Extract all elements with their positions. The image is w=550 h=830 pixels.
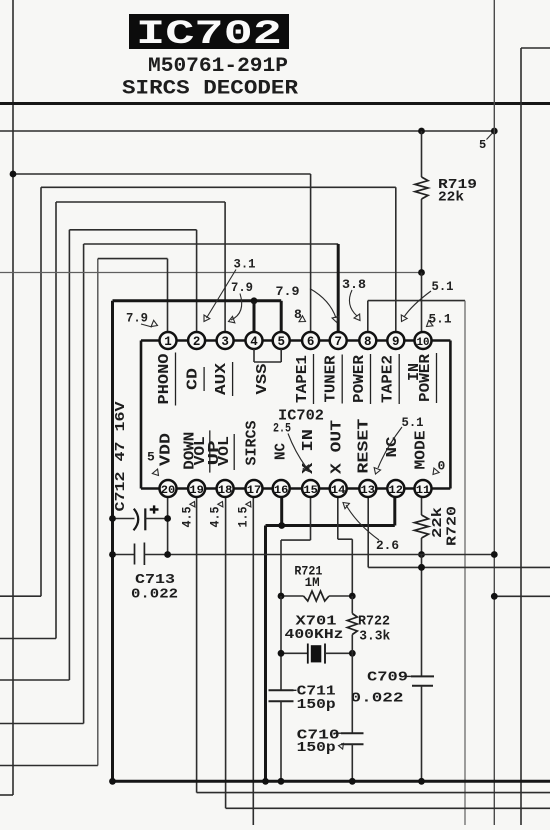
svg-text:4.5: 4.5 [180,506,195,527]
svg-text:RESET: RESET [356,419,373,474]
svg-text:2.6: 2.6 [376,538,399,553]
svg-text:15: 15 [303,485,318,497]
svg-text:5: 5 [147,450,155,465]
svg-text:8: 8 [294,307,302,322]
svg-text:NC: NC [273,443,290,460]
svg-text:14: 14 [331,485,346,497]
svg-text:3: 3 [221,335,229,349]
svg-text:9: 9 [392,335,400,349]
svg-text:13: 13 [361,485,376,497]
svg-text:VSS: VSS [254,364,271,395]
svg-text:11: 11 [416,485,431,497]
svg-text:R722: R722 [358,614,390,630]
svg-text:SIRCS DECODER: SIRCS DECODER [122,78,298,101]
svg-text:C709: C709 [367,670,408,686]
svg-text:17: 17 [247,485,262,497]
svg-text:5: 5 [277,335,285,349]
svg-text:AUX: AUX [213,363,230,395]
svg-text:5.1: 5.1 [432,279,454,294]
svg-text:4: 4 [250,335,258,349]
svg-text:SIRCS: SIRCS [244,421,261,466]
svg-text:7.9: 7.9 [126,311,148,326]
svg-text:1: 1 [164,335,172,349]
svg-text:7: 7 [334,335,342,349]
svg-text:3.8: 3.8 [342,277,366,292]
svg-text:400KHz: 400KHz [285,627,344,643]
svg-text:POWER: POWER [417,354,434,402]
svg-text:3.1: 3.1 [234,257,256,272]
svg-text:4.5: 4.5 [208,506,223,527]
svg-text:6: 6 [307,335,315,349]
svg-text:VDD: VDD [158,433,175,466]
svg-text:20: 20 [161,485,176,497]
svg-text:VOL: VOL [216,436,233,466]
svg-text:150p: 150p [297,740,336,756]
svg-text:150p: 150p [297,697,336,713]
svg-text:CD: CD [185,368,202,390]
svg-text:10: 10 [417,337,430,349]
svg-text:0: 0 [438,459,446,474]
svg-text:0.022: 0.022 [351,691,404,707]
svg-text:7.9: 7.9 [231,280,253,295]
svg-text:8: 8 [364,335,372,349]
svg-text:M50761-291P: M50761-291P [148,55,288,78]
svg-text:2.5: 2.5 [273,421,291,436]
svg-text:R720: R720 [445,506,461,546]
svg-text:X OUT: X OUT [329,420,346,474]
svg-text:IC702: IC702 [136,16,282,54]
svg-text:PHONO: PHONO [156,354,173,405]
svg-text:MODE: MODE [413,431,430,470]
svg-text:TUNER: TUNER [323,356,340,403]
svg-text:16: 16 [274,485,289,497]
svg-text:12: 12 [389,485,404,497]
svg-text:TAPE1: TAPE1 [294,355,311,403]
svg-text:5.1: 5.1 [402,415,424,430]
svg-text:2: 2 [193,335,201,349]
svg-text:0.022: 0.022 [131,587,178,603]
svg-text:POWER: POWER [351,355,368,403]
svg-text:22k: 22k [438,190,464,206]
svg-text:TAPE2: TAPE2 [380,355,397,403]
svg-text:19: 19 [189,485,204,497]
svg-text:7.9: 7.9 [276,284,300,299]
svg-text:3.3k: 3.3k [359,628,390,644]
svg-text:1M: 1M [305,575,320,590]
svg-text:C712 47 16V: C712 47 16V [113,401,129,512]
svg-text:1.5: 1.5 [236,506,251,527]
svg-text:18: 18 [218,485,233,497]
svg-text:5: 5 [479,138,486,152]
